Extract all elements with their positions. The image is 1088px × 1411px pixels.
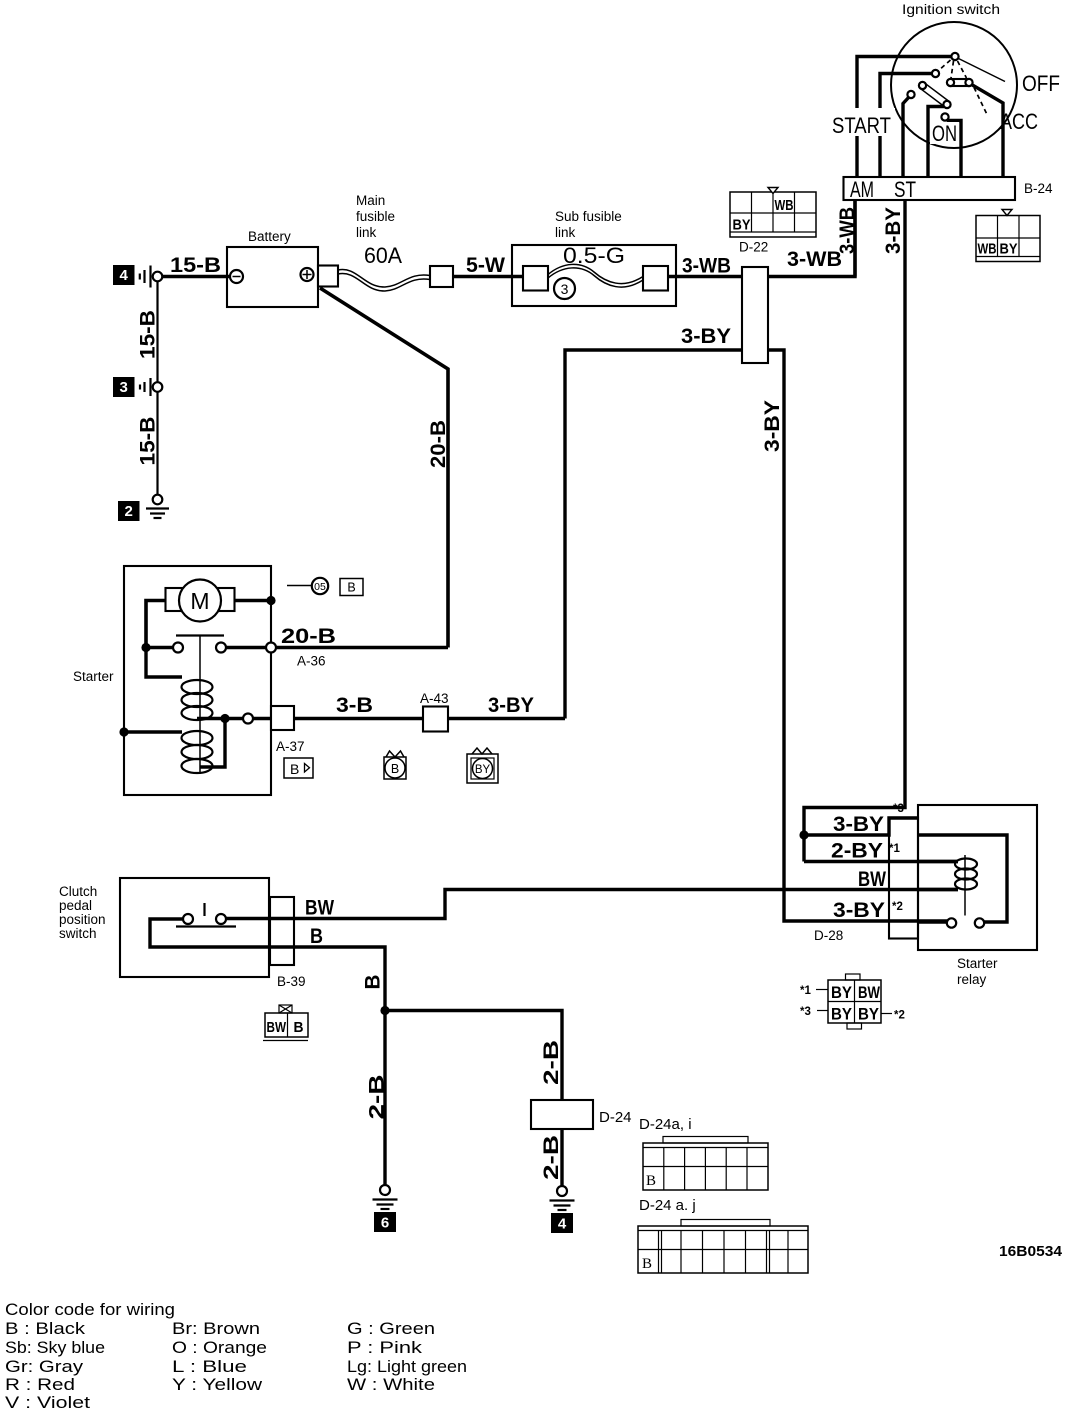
svg-text:position: position bbox=[59, 912, 106, 927]
svg-text:B : Black: B : Black bbox=[5, 1319, 86, 1338]
connector table WB/BY right bbox=[976, 210, 1040, 262]
svg-text:relay: relay bbox=[957, 972, 987, 987]
svg-text:B-24: B-24 bbox=[1024, 181, 1053, 196]
wire 3-WB below B-24 (drawn above as riser) bbox=[853, 200, 856, 277]
connector A-37 bbox=[271, 706, 305, 754]
svg-text:Gr: Gray: Gr: Gray bbox=[5, 1357, 84, 1376]
connector table D-24a j bbox=[638, 1197, 808, 1273]
wire 15-B ground chain vertical bbox=[137, 282, 160, 496]
wire 3-BY D-22 to starter relay *2 bbox=[761, 350, 947, 922]
svg-text:link: link bbox=[356, 225, 377, 240]
starter box bbox=[73, 566, 271, 795]
svg-text:fusible: fusible bbox=[356, 209, 395, 224]
starter motor brushes bbox=[166, 588, 235, 611]
wire 15-B battery to ground 4 bbox=[162, 254, 230, 277]
svg-text:3-BY: 3-BY bbox=[833, 813, 884, 836]
svg-text:3-BY: 3-BY bbox=[761, 400, 784, 452]
wire BW clutch switch to relay bbox=[226, 868, 958, 920]
svg-text:G : Green: G : Green bbox=[347, 1319, 435, 1338]
svg-text:AM: AM bbox=[850, 177, 874, 202]
svg-text:Br: Brown: Br: Brown bbox=[172, 1319, 260, 1338]
svg-text:BW: BW bbox=[267, 1019, 287, 1036]
svg-text:Clutch: Clutch bbox=[59, 884, 97, 899]
svg-text:3: 3 bbox=[561, 281, 569, 297]
wire ACC contact drop bbox=[972, 85, 1004, 178]
svg-text:Starter: Starter bbox=[73, 669, 114, 684]
solenoid pull-in coil bbox=[182, 680, 213, 720]
svg-text:20-B: 20-B bbox=[427, 420, 450, 468]
svg-text:3-BY: 3-BY bbox=[882, 207, 905, 254]
svg-text:V : Violet: V : Violet bbox=[5, 1393, 90, 1411]
svg-text:B: B bbox=[290, 761, 299, 777]
ignition contact c4 bbox=[907, 91, 914, 98]
starter motor M bbox=[179, 580, 221, 622]
svg-text:D-24 a. j: D-24 a. j bbox=[639, 1197, 696, 1214]
svg-text:link: link bbox=[555, 225, 576, 240]
svg-text:Color code for wiring: Color code for wiring bbox=[5, 1300, 175, 1319]
svg-text:05: 05 bbox=[314, 581, 326, 593]
battery bbox=[227, 229, 318, 307]
svg-text:Starter: Starter bbox=[957, 956, 998, 971]
label ACC bbox=[1000, 109, 1038, 134]
color code legend bbox=[5, 1300, 467, 1411]
svg-text:*1: *1 bbox=[800, 985, 811, 997]
svg-text:16B0534: 16B0534 bbox=[999, 1243, 1063, 1260]
relay coil bbox=[955, 855, 977, 916]
wire 3-BY to relay *3 bbox=[804, 803, 918, 836]
svg-text:B-39: B-39 bbox=[277, 974, 306, 989]
svg-text:4: 4 bbox=[558, 1216, 567, 1233]
svg-text:0.5-G: 0.5-G bbox=[563, 243, 625, 268]
svg-text:W : White: W : White bbox=[347, 1375, 435, 1394]
svg-text:BW: BW bbox=[858, 868, 886, 891]
wire clutch switch B return bbox=[150, 919, 389, 1186]
svg-text:3-WB: 3-WB bbox=[682, 255, 731, 278]
relay contacts bbox=[918, 918, 984, 927]
svg-text:A-36: A-36 bbox=[297, 654, 326, 669]
svg-text:D-28: D-28 bbox=[814, 928, 843, 943]
wire 3-B A-37 to A-43 bbox=[253, 694, 565, 719]
splice symbol B triangle bbox=[284, 758, 313, 778]
wire AM terminal to pivot bbox=[857, 57, 951, 178]
relay pin markers bbox=[800, 985, 905, 1022]
svg-text:Main: Main bbox=[356, 193, 385, 208]
junction dot 3-BY branch bbox=[799, 830, 808, 839]
svg-text:*3: *3 bbox=[800, 1006, 811, 1018]
svg-text:5-W: 5-W bbox=[466, 254, 505, 277]
label OFF bbox=[1022, 71, 1060, 96]
ignition switch body bbox=[891, 2, 1017, 148]
svg-text:20-B: 20-B bbox=[281, 625, 336, 648]
svg-text:2-B: 2-B bbox=[540, 1040, 563, 1085]
solenoid hold-in coil bbox=[182, 731, 213, 773]
svg-text:Y : Yellow: Y : Yellow bbox=[172, 1375, 263, 1394]
svg-text:ON: ON bbox=[932, 121, 957, 146]
svg-text:WB: WB bbox=[775, 197, 794, 214]
svg-text:BW: BW bbox=[858, 984, 880, 1002]
svg-text:ACC: ACC bbox=[1000, 109, 1038, 134]
svg-text:3-BY: 3-BY bbox=[681, 325, 731, 348]
svg-text:switch: switch bbox=[59, 926, 97, 941]
svg-text:B: B bbox=[310, 925, 323, 948]
ground 4 bbox=[113, 265, 162, 288]
connector table D-24a i bbox=[639, 1116, 768, 1190]
wire 20-B A-36 to battery branch bbox=[276, 625, 448, 648]
svg-text:3: 3 bbox=[120, 379, 128, 396]
svg-text:R : Red: R : Red bbox=[5, 1375, 75, 1394]
wire 3-WB D-22 to B-24 AM bbox=[768, 200, 859, 277]
wire ST contact drop bbox=[880, 74, 932, 178]
sub fusible link bbox=[512, 209, 676, 306]
svg-text:4: 4 bbox=[120, 267, 129, 284]
svg-text:A-43: A-43 bbox=[420, 691, 449, 706]
connector D-22 bbox=[739, 240, 768, 364]
ignition dashed rotation lines bbox=[938, 60, 987, 115]
ground 2 bbox=[118, 495, 169, 521]
terminal A-36 bbox=[266, 643, 326, 669]
ground 3 bbox=[113, 377, 162, 397]
svg-text:A-37: A-37 bbox=[276, 739, 305, 754]
svg-text:M: M bbox=[190, 588, 209, 614]
drawing number 16B0534 bbox=[999, 1243, 1063, 1260]
svg-text:2-B: 2-B bbox=[366, 1075, 389, 1120]
wire 2-B D-24 to ground 4 bbox=[540, 1129, 563, 1186]
ground 6 bbox=[373, 1185, 398, 1232]
wire 5-W bbox=[453, 254, 523, 277]
svg-text:D-22: D-22 bbox=[739, 240, 768, 255]
svg-text:BY: BY bbox=[475, 764, 491, 776]
ignition START-ON bridge contact bbox=[919, 82, 951, 108]
splice symbol BW B table bbox=[263, 1005, 308, 1041]
svg-text:Ignition switch: Ignition switch bbox=[902, 2, 1000, 17]
connector B-24 bbox=[844, 177, 1054, 202]
svg-text:6: 6 bbox=[381, 1215, 389, 1232]
solenoid plunger axis bbox=[176, 636, 224, 775]
wire case ground to hold coil bbox=[119, 727, 182, 736]
svg-text:B: B bbox=[347, 581, 355, 595]
wire contact c4 drop bbox=[903, 97, 909, 177]
svg-text:ST: ST bbox=[894, 177, 916, 202]
connector table WB/BY left bbox=[730, 188, 816, 238]
svg-text:WB: WB bbox=[978, 241, 997, 258]
svg-text:Sub fusible: Sub fusible bbox=[555, 209, 622, 224]
clutch pedal position switch box bbox=[59, 878, 269, 977]
svg-text:3-BY: 3-BY bbox=[488, 694, 534, 717]
circled 3 fuse number bbox=[554, 278, 575, 299]
connector D-28 bbox=[814, 818, 918, 944]
ignition pivot contact bbox=[951, 53, 958, 60]
svg-text:Battery: Battery bbox=[248, 229, 291, 244]
svg-text:O : Orange: O : Orange bbox=[172, 1338, 267, 1357]
splice symbol boxed BY bbox=[467, 748, 498, 783]
ignition OFF-ACC bridge contact bbox=[947, 79, 973, 86]
wire motor left to solenoid switch bbox=[141, 601, 165, 653]
svg-text:BY: BY bbox=[733, 217, 751, 234]
label START bbox=[829, 108, 895, 138]
junction dot 2-B branch bbox=[380, 1006, 389, 1015]
relay coil feed wires bbox=[918, 862, 958, 890]
svg-text:*2: *2 bbox=[894, 1010, 905, 1022]
wire motor to case node bbox=[235, 596, 276, 605]
connector B-39 bbox=[270, 897, 306, 989]
wire coil junction down to hold coil bbox=[200, 720, 225, 767]
svg-text:BY: BY bbox=[831, 1006, 852, 1024]
svg-text:B: B bbox=[646, 1173, 656, 1189]
svg-text:*1: *1 bbox=[889, 843, 900, 855]
wire ON contact drop bbox=[946, 119, 961, 178]
ignition contact c2 bbox=[932, 70, 939, 77]
connector A-43 bbox=[420, 691, 449, 732]
svg-text:BW: BW bbox=[305, 897, 334, 920]
svg-text:B: B bbox=[294, 1019, 304, 1036]
splice symbol circled B bbox=[384, 751, 406, 779]
ignition OFF pointer line bbox=[959, 59, 1006, 82]
svg-text:START: START bbox=[832, 113, 891, 138]
svg-text:B: B bbox=[362, 975, 385, 990]
svg-text:BY: BY bbox=[858, 1006, 879, 1024]
svg-text:OFF: OFF bbox=[1022, 71, 1060, 96]
ignition contact ON bbox=[941, 113, 948, 120]
svg-text:B: B bbox=[642, 1256, 652, 1272]
svg-text:2: 2 bbox=[125, 503, 133, 520]
battery positive terminal bbox=[301, 268, 314, 281]
svg-text:60A: 60A bbox=[364, 243, 402, 268]
svg-text:P : Pink: P : Pink bbox=[347, 1338, 423, 1357]
wire coil junction to A-37 bbox=[197, 714, 253, 724]
svg-text:*3: *3 bbox=[893, 803, 904, 815]
svg-text:BY: BY bbox=[1000, 241, 1018, 258]
svg-text:3-BY: 3-BY bbox=[833, 899, 885, 922]
svg-text:BY: BY bbox=[831, 984, 852, 1002]
svg-text:15-B: 15-B bbox=[137, 417, 160, 466]
svg-text:3-WB: 3-WB bbox=[787, 248, 842, 271]
wire solenoid coil feed bbox=[146, 649, 182, 677]
svg-text:Lg: Light green: Lg: Light green bbox=[347, 1357, 467, 1376]
wire 2-BY to relay *1 bbox=[804, 840, 958, 863]
label ON bbox=[930, 121, 959, 146]
clutch switch contacts bbox=[176, 903, 236, 927]
svg-text:D-24: D-24 bbox=[599, 1109, 632, 1126]
svg-text:L : Blue: L : Blue bbox=[172, 1357, 247, 1376]
svg-text:3-B: 3-B bbox=[336, 694, 373, 717]
wire 3-BY from ST terminal down to relay area bbox=[804, 200, 905, 862]
wire 3-BY starter branch to D-22 bbox=[565, 325, 742, 719]
wire 3-WB sub link to D-22 bbox=[668, 255, 742, 278]
wire 20-B battery to starter bbox=[320, 288, 450, 648]
connector symbol 05 B bbox=[287, 578, 363, 596]
relay internal contact feed wire bbox=[918, 835, 1007, 922]
starter relay box bbox=[918, 805, 1037, 987]
svg-text:*2: *2 bbox=[892, 901, 903, 913]
wire 2-B branch to D-24 bbox=[385, 1011, 563, 1101]
connector D-24 bbox=[531, 1100, 632, 1129]
svg-text:15-B: 15-B bbox=[137, 310, 160, 359]
svg-text:pedal: pedal bbox=[59, 898, 92, 913]
svg-text:2-BY: 2-BY bbox=[831, 840, 883, 863]
svg-text:Sb: Sky blue: Sb: Sky blue bbox=[5, 1338, 105, 1357]
svg-text:D-24a, i: D-24a, i bbox=[639, 1116, 692, 1133]
solenoid switch contacts bbox=[150, 643, 266, 653]
svg-text:B: B bbox=[391, 762, 399, 776]
ground 4 lower bbox=[550, 1186, 575, 1233]
main fusible link 60A bbox=[318, 193, 453, 291]
svg-text:15-B: 15-B bbox=[170, 254, 221, 277]
label 3-BY after A-43 bbox=[488, 694, 534, 717]
relay pin table bbox=[828, 974, 881, 1029]
wire contact c5 drop bbox=[928, 107, 944, 178]
battery negative terminal bbox=[230, 270, 243, 283]
svg-text:2-B: 2-B bbox=[540, 1135, 563, 1180]
